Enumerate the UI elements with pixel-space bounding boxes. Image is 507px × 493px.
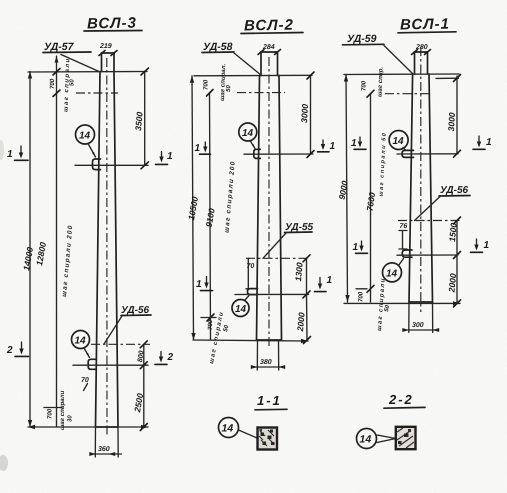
hook level line VSL-3 upper [75,164,148,166]
label UD-57 [43,41,99,72]
section title 1-1 [255,393,287,410]
dim 3000 right VSL-1 [436,75,461,158]
callout circle 14 (lower VSL-1) [383,259,404,282]
section mark 1 right (VSL-3) [156,151,174,164]
section mark 1 upper-left (VSL-2) [195,142,211,154]
dashdot at UD-55 level VSL-2 [246,257,308,259]
dim 300 bottom width VSL-1 [402,302,439,333]
section mark 1 left (VSL-3) [7,146,28,160]
dim 2500 right VSL-3 [132,365,147,430]
callout circle 14 (lower VSL-2) [232,296,249,317]
section mark 1 lower-left (VSL-2) [196,277,213,291]
dim 280 top width VSL-1 [412,44,431,55]
hook level line VSL-1 upper [397,153,458,155]
collar line VSL-1 [344,73,459,76]
text 70 with leader VSL-3 [81,377,89,391]
dim 1500 right VSL-1 [447,217,460,259]
upper dashdot level VSL-3 [76,92,118,94]
dim 10500 left VSL-2 [186,76,200,340]
dim 800 right VSL-3 [137,341,147,369]
pole tip VSL-1 [415,52,428,74]
section 1-1 square [258,428,278,450]
pole body VSL-3 [96,72,119,428]
section mark 1 lower-left (VSL-1) [353,241,368,253]
dim 2000 right VSL-1 [446,255,460,307]
dim 12800 line VSL-3 [34,56,60,427]
tick at 700-from-bottom VSL-2 [201,317,216,319]
mini dim line 76 VSL-1 [399,231,407,250]
title VSL-2 [241,17,303,35]
centerline VSL-1 [420,47,422,312]
pole tip VSL-3 [102,53,115,72]
label UD-55 [263,222,314,258]
section mark 1 upper-left (VSL-1) [351,137,366,149]
label UD-58 [202,41,262,76]
dim 1300 right VSL-2 [293,255,310,298]
collar line VSL-2 [194,74,312,77]
centerline VSL-2 [268,57,270,349]
upper dashdot level VSL-2 [237,92,285,94]
dim 14000 left VSL-3 [21,72,35,428]
label UD-56 (left pole) [104,305,151,344]
bottom dim line VSL-2 [193,339,308,343]
dim 380 bottom width VSL-2 [251,340,285,370]
dim 9100 line VSL-2 [204,90,217,341]
dashdot at UD-56 level VSL-3 [91,343,150,345]
hook level line VSL-1 lower [397,254,458,256]
label UD-56 (right pole) [415,185,471,221]
hook 14 upper VSL-3 [93,159,101,170]
hook 14 lower VSL-1 [402,250,412,257]
section mark 1 lower-right (VSL-2) [315,275,333,292]
callout circle 14 (section 2-2) [357,429,397,449]
centerline VSL-3 [106,58,108,437]
section mark 1 upper-right (VSL-1) [473,136,492,149]
hook level line VSL-2 upper [244,153,313,155]
dim 360 bottom width VSL-3 [89,427,121,457]
mini dim line 70 VSL-2 [246,258,256,289]
dim 3500 right VSL-3 [133,68,148,169]
hook level line VSL-2 lower [235,293,309,295]
bottom dim line VSL-3 [28,425,148,429]
callout circle 14 (section 1-1) [219,418,258,439]
hook 14 upper VSL-2 [254,149,260,158]
title VSL-1 [398,16,456,34]
dim 3000 right VSL-2 [299,72,314,158]
callout circle 14 (upper VSL-1) [389,131,408,151]
section mark 2 right (VSL-3) [155,352,174,365]
pole tip VSL-2 [261,52,278,76]
section title 2-2 [384,392,425,408]
title VSL-3 [84,15,142,33]
pole body VSL-2 [257,76,282,341]
tick at 700-from-bottom VSL-3 [44,407,62,409]
scan noise overlay [0,0,1,1]
section mark 2 left (VSL-3) [6,342,29,356]
dim 9000 left VSL-1 [337,75,350,303]
bottom dim line VSL-1 [344,301,460,305]
section mark 1 upper-right (VSL-2) [318,140,336,152]
section mark 1 lower-right (VSL-1) [471,239,490,252]
callout circle 14 (lower VSL-3) [72,331,90,358]
hook 14 lower VSL-2 [248,289,258,295]
pole body VSL-1 [409,74,433,302]
upper dashdot level VSL-1 [385,93,430,95]
dashdot at UD-56 level VSL-1 [398,220,460,222]
dim 7600 line VSL-1 [365,90,378,302]
collar line VSL-3 [28,71,147,74]
dim 284 top width VSL-2 [258,44,281,55]
callout circle 14 (upper VSL-3) [76,125,96,157]
callout circle 14 (upper VSL-2) [239,123,257,149]
section 2-2 square [396,427,416,449]
hook 14 lower VSL-3 [88,359,96,369]
dim 219 top width [99,43,117,56]
dim 2000 right VSL-2 [295,294,311,343]
label UD-59 [343,33,413,74]
tick at 700-from-bottom VSL-1 [356,288,367,290]
hook 14 upper VSL-1 [402,150,414,157]
hook level line VSL-3 lower [73,364,148,366]
